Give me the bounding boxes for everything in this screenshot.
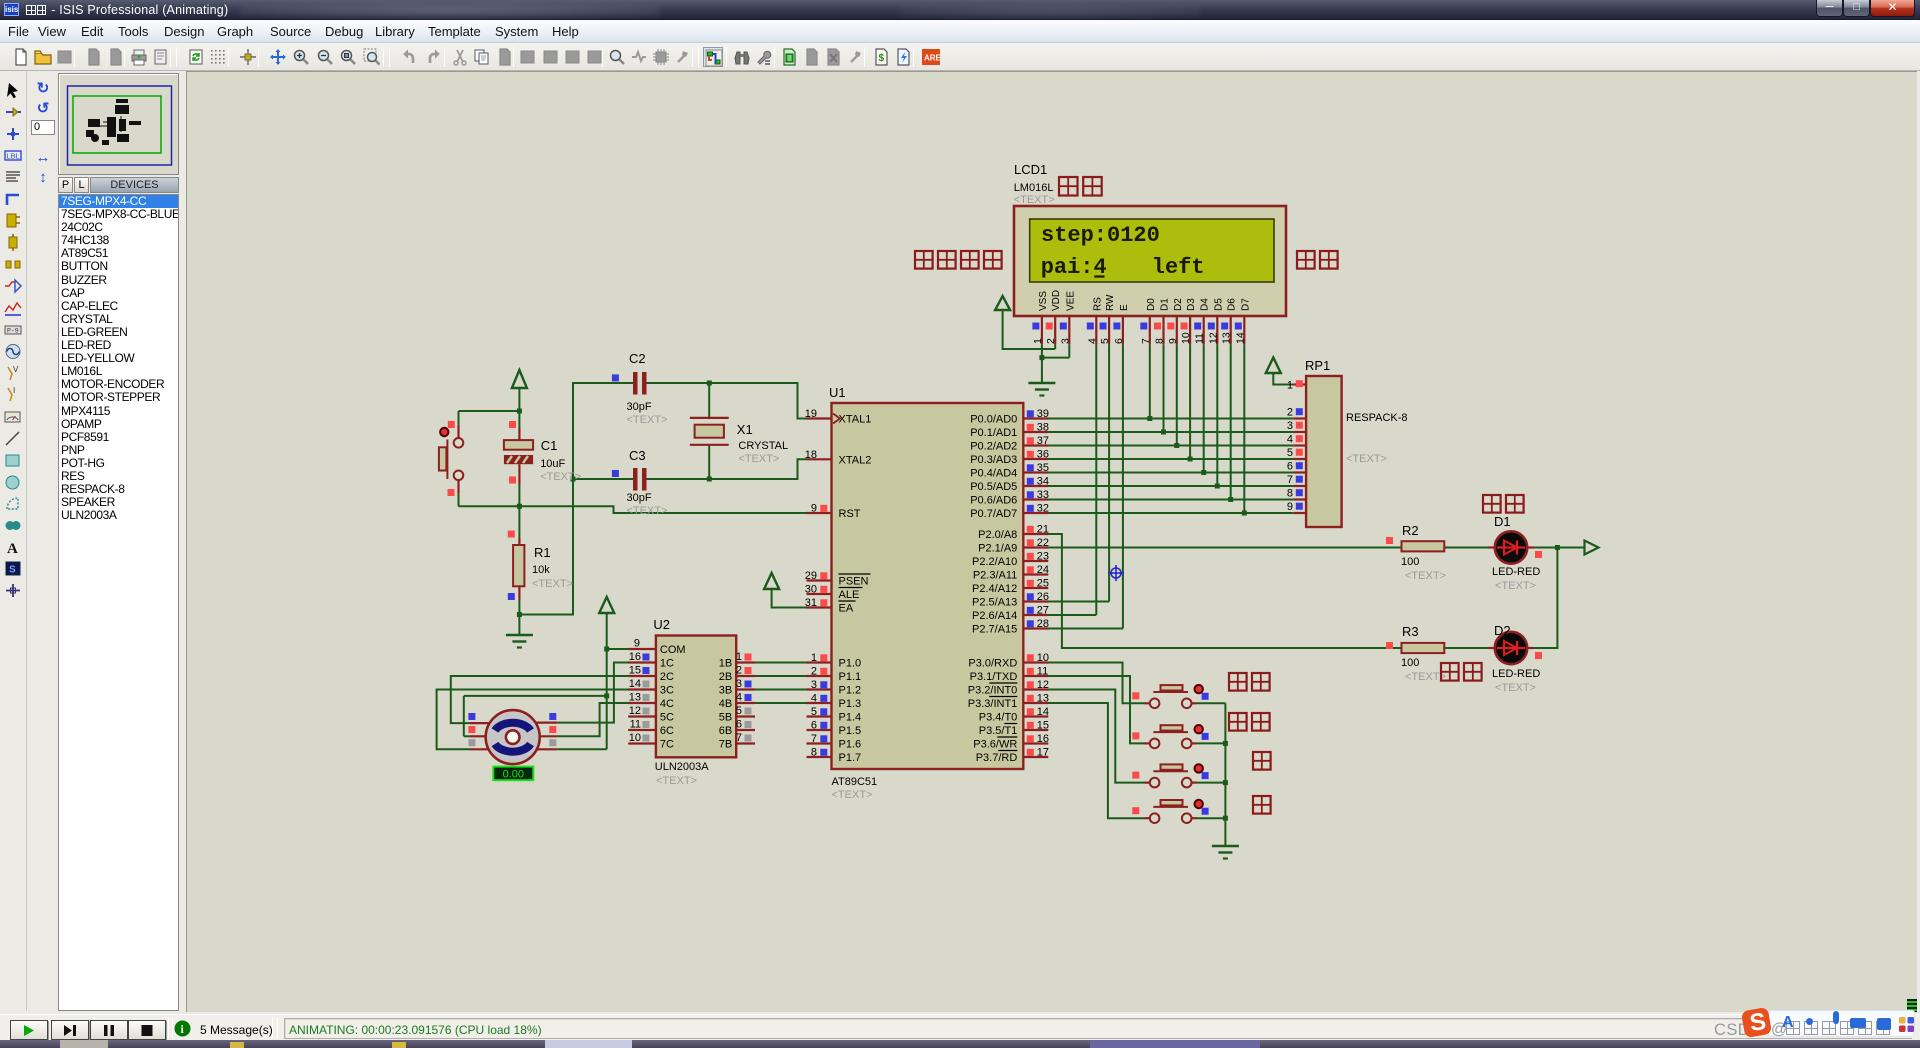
- label tongdianfangshi (power mode): [915, 251, 1002, 269]
- svg-text:D3: D3: [1186, 298, 1197, 311]
- U2 pin 2B (2): [719, 665, 755, 684]
- LCD1 pin D3 (10): [1180, 298, 1197, 345]
- svg-text:7: 7: [811, 733, 817, 745]
- wire LCD D4 to P0.4 bus: [1203, 344, 1205, 472]
- svg-text:7B: 7B: [719, 739, 732, 751]
- wire D1 node down to D2: [1534, 548, 1557, 649]
- svg-text:D7: D7: [1240, 298, 1251, 311]
- wire keys common to ground: [1197, 703, 1226, 846]
- svg-text:U2: U2: [653, 617, 670, 632]
- svg-text:AT89C51: AT89C51: [832, 776, 878, 788]
- svg-text:ULN2003A: ULN2003A: [655, 761, 709, 773]
- U1 pin P3.6/WR (16): [973, 733, 1049, 751]
- wire C3 right to XTAL2: [647, 459, 808, 479]
- svg-text:10: 10: [629, 732, 641, 744]
- svg-text:left: left: [1152, 255, 1205, 280]
- LCD1 pin D5 (12): [1207, 298, 1224, 345]
- svg-text:P1.4: P1.4: [839, 712, 862, 724]
- U1 pin P3.1/TXD (11): [970, 666, 1049, 684]
- LCD1 pin VEE (3): [1059, 291, 1076, 345]
- svg-text:9: 9: [634, 638, 640, 650]
- svg-text:22: 22: [1037, 537, 1049, 549]
- svg-text:2C: 2C: [660, 671, 674, 683]
- svg-text:16: 16: [629, 651, 641, 663]
- svg-text:30: 30: [805, 584, 817, 596]
- node junction button/C1 top: [517, 409, 522, 414]
- U1 pin P3.0/RXD (10): [968, 652, 1049, 670]
- svg-text:LED-RED: LED-RED: [1492, 566, 1540, 578]
- svg-text:P3.1/TXD: P3.1/TXD: [970, 671, 1018, 683]
- svg-text:RW: RW: [1105, 294, 1116, 311]
- wire R3 to D2: [1444, 647, 1488, 649]
- U1 pin P0.5/AD5 (34): [970, 476, 1049, 494]
- wire LCD VDD pin2 to VCC: [1003, 310, 1056, 349]
- svg-text:<TEXT>: <TEXT>: [1495, 682, 1536, 694]
- wire P2.0 to R3: [1048, 534, 1402, 648]
- svg-text:<TEXT>: <TEXT>: [1346, 453, 1387, 465]
- node junction X1 top: [707, 381, 712, 386]
- svg-text:D5: D5: [1213, 298, 1224, 311]
- svg-text:D1: D1: [1160, 298, 1171, 311]
- svg-text:8: 8: [811, 747, 817, 759]
- LED D2 LED-RED: [1488, 623, 1542, 694]
- label zhengfan (fwd/rev): [1441, 663, 1482, 681]
- svg-text:9: 9: [1287, 501, 1293, 513]
- svg-text:4: 4: [1287, 434, 1293, 446]
- svg-text:P0.1/AD1: P0.1/AD1: [970, 427, 1017, 439]
- U2 pin 7B (7): [719, 732, 755, 751]
- svg-text:RESPACK-8: RESPACK-8: [1346, 412, 1408, 424]
- push-button key 2 (set): [1132, 725, 1208, 748]
- node junction key2: [1223, 741, 1228, 746]
- svg-text:<TEXT>: <TEXT>: [540, 471, 581, 483]
- svg-text:19: 19: [805, 408, 817, 420]
- svg-text:P1.5: P1.5: [839, 725, 862, 737]
- wire X1 stems: [708, 383, 710, 479]
- svg-text:2: 2: [811, 666, 817, 678]
- svg-text:34: 34: [1037, 476, 1049, 488]
- svg-text:7: 7: [1140, 338, 1152, 344]
- U1 pin P0.6/AD6 (33): [970, 489, 1049, 507]
- svg-text:14: 14: [629, 678, 641, 690]
- svg-text:38: 38: [1037, 422, 1049, 434]
- svg-text:A: A: [7, 541, 18, 557]
- svg-text:<TEXT>: <TEXT>: [1495, 580, 1536, 592]
- svg-text:30pF: 30pF: [627, 492, 652, 504]
- svg-text:2: 2: [1045, 338, 1057, 344]
- U1 pin P2.0/A8 (21): [978, 524, 1049, 542]
- LCD1 pin D2 (9): [1167, 298, 1184, 345]
- node junction D2/P0.2: [1174, 443, 1179, 448]
- svg-text:P2.6/A14: P2.6/A14: [972, 610, 1017, 622]
- U1 pin P3.4/T0 (14): [979, 706, 1049, 724]
- RP1 pin 3: [1287, 420, 1306, 432]
- label qiting (start/stop) key: [1229, 673, 1270, 691]
- svg-text:P2.1/A9: P2.1/A9: [978, 543, 1017, 555]
- wire P0.7 to RP1 pin 9: [1048, 512, 1293, 514]
- svg-text:4: 4: [811, 693, 817, 705]
- U1 pin P3.5/T1 (15): [979, 720, 1049, 738]
- transistor-array U2 ULN2003A body: [653, 617, 736, 787]
- U1 pin ALE (30): [805, 584, 863, 602]
- wire EA to VCC: [772, 589, 807, 608]
- U1 pin P0.4/AD4 (35): [970, 462, 1049, 480]
- label jian (decrease) key: [1253, 796, 1271, 814]
- svg-text:100: 100: [1401, 556, 1419, 568]
- wire C2/C3 left plates to ground net: [519, 383, 633, 615]
- svg-text:5: 5: [1287, 447, 1293, 459]
- resistor R1 10k: [508, 531, 573, 601]
- svg-text:31: 31: [805, 597, 817, 609]
- push-button key 4 (dec): [1132, 800, 1208, 823]
- svg-text:P1.7: P1.7: [839, 752, 862, 764]
- U1 pin RST (9): [807, 503, 861, 521]
- svg-text:P2.0/A8: P2.0/A8: [978, 529, 1017, 541]
- svg-text:39: 39: [1037, 408, 1049, 420]
- svg-text:1: 1: [1032, 338, 1044, 344]
- U1 pin XTAL1 (19): [805, 408, 872, 426]
- wire P2.1 to R2: [1048, 547, 1402, 549]
- svg-text:15: 15: [629, 665, 641, 677]
- wire P3.0 to key 1: [1048, 663, 1145, 704]
- svg-text:10k: 10k: [532, 564, 550, 576]
- svg-text:XTAL2: XTAL2: [839, 454, 872, 466]
- wire P3.1 to key 2: [1048, 676, 1145, 743]
- svg-text:3: 3: [811, 679, 817, 691]
- svg-text:35: 35: [1037, 462, 1049, 474]
- wire P0.1 to RP1 pin 3: [1048, 431, 1293, 433]
- wire P3.2 to key 3: [1048, 690, 1145, 783]
- svg-text:R2: R2: [1402, 523, 1419, 538]
- svg-text:LED-RED: LED-RED: [1492, 668, 1540, 680]
- svg-text:0.00: 0.00: [503, 768, 524, 780]
- svg-text:P2.7/A15: P2.7/A15: [972, 624, 1017, 636]
- svg-text:PSEN: PSEN: [839, 576, 869, 588]
- svg-text:13: 13: [1221, 332, 1233, 344]
- svg-text:9: 9: [811, 503, 817, 515]
- svg-text:<TEXT>: <TEXT>: [738, 453, 779, 465]
- node junction D3/P0.3: [1188, 457, 1193, 462]
- svg-text:11: 11: [630, 719, 641, 731]
- label jia (increase) key: [1253, 752, 1271, 770]
- wire U2 3B to U1 P1.2: [755, 689, 807, 691]
- node junction motor common: [604, 693, 609, 698]
- svg-text:12: 12: [1037, 679, 1049, 691]
- svg-text:RST: RST: [839, 508, 861, 520]
- op-amp U1 AT89C51 microcontroller body: [829, 385, 1023, 801]
- wire LCD RW to P2.5: [1048, 344, 1109, 601]
- U1 pin P2.1/A9 (22): [978, 537, 1049, 555]
- RP1 pin 4: [1287, 434, 1306, 446]
- wire LCD D3 to P0.3 bus: [1189, 344, 1191, 459]
- U1 pin P3.2/INT0 (12): [968, 679, 1049, 697]
- origin marker: [1108, 565, 1124, 581]
- svg-text:2B: 2B: [719, 671, 732, 683]
- svg-text:P1.1: P1.1: [839, 671, 862, 683]
- wire node to R1 top: [518, 506, 520, 538]
- LCD1 pin D6 (13): [1221, 298, 1238, 345]
- motor-stepper: [468, 710, 557, 764]
- U1 pin P0.3/AD3 (36): [970, 449, 1049, 467]
- svg-text:6: 6: [1113, 338, 1125, 344]
- svg-text:4B: 4B: [719, 698, 732, 710]
- U2 pin COM (9): [628, 638, 685, 657]
- svg-text:D6: D6: [1227, 298, 1238, 311]
- resistor-pack RP1 RESPACK-8 body: [1305, 358, 1408, 527]
- svg-text:C2: C2: [629, 351, 646, 366]
- svg-text:29: 29: [805, 570, 817, 582]
- U1 pin P1.6 (7): [807, 733, 862, 751]
- svg-text:8: 8: [1154, 338, 1166, 344]
- svg-text:33: 33: [1037, 489, 1049, 501]
- svg-text:P-9: P-9: [7, 328, 19, 335]
- wire LCD D5 to P0.5 bus: [1216, 344, 1218, 486]
- svg-text:3B: 3B: [719, 685, 732, 697]
- wire P3.3 to key 4: [1048, 703, 1145, 818]
- label bushu (step count): [1059, 177, 1102, 196]
- svg-text:3: 3: [1059, 338, 1071, 344]
- svg-text:S: S: [9, 565, 16, 576]
- svg-text:P0.5/AD5: P0.5/AD5: [970, 481, 1017, 493]
- svg-text:27: 27: [1037, 605, 1049, 617]
- U2 pin 6B (6): [719, 719, 755, 738]
- svg-text:R1: R1: [534, 545, 551, 560]
- LCD1 pin D0 (7): [1140, 298, 1157, 345]
- U1 pin P0.1/AD1 (38): [970, 422, 1049, 440]
- svg-text:U1: U1: [829, 385, 846, 400]
- U1 pin P1.5 (6): [807, 720, 862, 738]
- LCD1 pin D7 (14): [1234, 298, 1251, 345]
- wire P0.5 to RP1 pin 7: [1048, 485, 1293, 487]
- wire ground stem: [518, 615, 520, 636]
- power VCC arrow (ULN2003A COM): [599, 597, 614, 613]
- output arrow terminal: [1585, 541, 1599, 555]
- RP1 pin 8: [1287, 488, 1306, 500]
- svg-text:P1.3: P1.3: [839, 698, 862, 710]
- svg-text:P0.3/AD3: P0.3/AD3: [970, 454, 1017, 466]
- U1 pin P1.7 (8): [807, 747, 862, 765]
- U1 pin EA (31): [805, 597, 856, 615]
- svg-text:14: 14: [1234, 332, 1246, 344]
- wire LCD D0 to P0.0 bus: [1149, 344, 1151, 418]
- LCD1 pin E (6): [1113, 304, 1130, 344]
- node junction D5/P0.5: [1215, 484, 1220, 489]
- wire U2 2C to motor left-top: [451, 676, 629, 723]
- svg-text:6: 6: [736, 719, 742, 731]
- wire C2 right to XTAL1: [647, 383, 808, 419]
- svg-text:X1: X1: [737, 422, 753, 437]
- U2 pin 4B (4): [719, 692, 755, 711]
- U2 pin 5C (12): [628, 705, 674, 724]
- svg-text:37: 37: [1037, 435, 1049, 447]
- U1 pin P2.6/A14 (27): [972, 605, 1049, 623]
- svg-text:ARES: ARES: [924, 54, 940, 63]
- wire P0.4 to RP1 pin 6: [1048, 472, 1293, 474]
- node junction D0/P0.0: [1147, 416, 1152, 421]
- svg-text:P0.6/AD6: P0.6/AD6: [970, 495, 1017, 507]
- U1 pin P0.0/AD0 (39): [970, 408, 1049, 426]
- svg-text:11: 11: [1194, 333, 1206, 344]
- RP1 pin 9: [1287, 501, 1306, 513]
- svg-text:RS: RS: [1092, 297, 1103, 311]
- wire RST net to U1 pin 9: [519, 506, 807, 513]
- svg-text:26: 26: [1037, 591, 1049, 603]
- svg-text:R3: R3: [1402, 624, 1419, 639]
- wire LCD D2 to P0.2 bus: [1176, 344, 1178, 445]
- svg-text:ALE: ALE: [839, 589, 860, 601]
- push-button (reset): [439, 421, 463, 496]
- svg-text:11: 11: [1037, 666, 1048, 678]
- LCD1 pin RW (5): [1099, 294, 1116, 344]
- wire U2 4C to motor right-mid: [557, 703, 629, 736]
- node junction VSS/VEE: [1039, 355, 1044, 360]
- svg-text:step:0120: step:0120: [1041, 223, 1160, 248]
- svg-text:C1: C1: [541, 438, 558, 453]
- U1 pin P1.1 (2): [807, 666, 862, 684]
- wire C1 bottom to node: [518, 485, 520, 506]
- svg-text:5B: 5B: [719, 712, 732, 724]
- svg-text:D0: D0: [1146, 298, 1157, 311]
- svg-text:1: 1: [736, 651, 742, 663]
- svg-text:P1.2: P1.2: [839, 685, 862, 697]
- svg-text:7: 7: [736, 732, 742, 744]
- svg-text:C3: C3: [629, 448, 646, 463]
- LCD1 pin VDD (2): [1045, 290, 1062, 344]
- U1 pin P1.2 (3): [807, 679, 862, 697]
- node junction D7/P0.7: [1242, 511, 1247, 516]
- U2 pin 7C (10): [628, 732, 674, 751]
- U1 pin P3.7/RD (17): [976, 747, 1049, 765]
- U2 pin 2C (15): [628, 665, 674, 684]
- motor speed readout 0.00: [493, 767, 533, 781]
- svg-text:6: 6: [1287, 461, 1293, 473]
- svg-text:COM: COM: [660, 644, 686, 656]
- wire P0.0 to RP1 pin 2: [1048, 418, 1293, 420]
- wire LCD D7 to P0.7 bus: [1243, 344, 1245, 513]
- wire P0.6 to RP1 pin 8: [1048, 499, 1293, 501]
- svg-text:4C: 4C: [660, 698, 674, 710]
- svg-text:VDD: VDD: [1051, 290, 1062, 311]
- U2 pin 5B (5): [719, 705, 755, 724]
- svg-text:7: 7: [1287, 474, 1293, 486]
- svg-text:<TEXT>: <TEXT>: [627, 414, 668, 426]
- LCD1 screen: [1030, 219, 1274, 282]
- svg-text:D2: D2: [1173, 298, 1184, 311]
- capacitor C3 30pF: [612, 448, 668, 517]
- svg-text:25: 25: [1037, 578, 1049, 590]
- svg-text:10uF: 10uF: [540, 458, 565, 470]
- U1 pin P1.3 (4): [807, 693, 862, 711]
- RP1 pin 2: [1287, 407, 1306, 419]
- resistor R2 100: [1386, 523, 1446, 582]
- U2 pin 3B (3): [719, 678, 755, 697]
- node junction R1 bottom/ground: [517, 612, 522, 617]
- svg-text:28: 28: [1037, 618, 1049, 630]
- node junction D1 output: [1555, 545, 1560, 550]
- svg-text:5: 5: [736, 705, 742, 717]
- RP1 pin 1: [1287, 380, 1306, 392]
- U1 pin P1.0 (1): [807, 652, 862, 670]
- wire VCC to button/C1 top node: [459, 388, 520, 425]
- svg-text:P0.2/AD2: P0.2/AD2: [970, 441, 1017, 453]
- svg-text:10: 10: [1037, 652, 1049, 664]
- svg-text:5C: 5C: [660, 712, 674, 724]
- svg-text:17: 17: [1037, 747, 1049, 759]
- wire LCD D1 to P0.1 bus: [1163, 344, 1165, 432]
- U2 pin 3C (14): [628, 678, 674, 697]
- svg-text:P2.4/A12: P2.4/A12: [972, 583, 1017, 595]
- svg-text:30pF: 30pF: [627, 401, 652, 413]
- svg-text:4: 4: [1086, 338, 1098, 344]
- power VCC arrow (button/C1): [512, 370, 527, 388]
- U1 pin P3.3/INT1 (13): [968, 693, 1049, 711]
- svg-text:EA: EA: [839, 603, 854, 615]
- svg-text:XTAL1: XTAL1: [839, 414, 872, 426]
- label shezhi (set) key: [1229, 713, 1270, 731]
- U1 pin XTAL2 (18): [805, 449, 872, 467]
- svg-text:P3.5/T1: P3.5/T1: [979, 725, 1018, 737]
- svg-text:P3.4/T0: P3.4/T0: [979, 712, 1018, 724]
- push-button key 3 (inc): [1132, 764, 1208, 787]
- svg-text:P3.0/RXD: P3.0/RXD: [968, 658, 1017, 670]
- svg-text:5: 5: [811, 706, 817, 718]
- svg-text:15: 15: [1037, 720, 1049, 732]
- U1 pin P0.7/AD7 (32): [970, 503, 1049, 521]
- svg-text:3: 3: [736, 678, 742, 690]
- svg-text:CRYSTAL: CRYSTAL: [738, 440, 788, 452]
- svg-text:10: 10: [1180, 332, 1192, 344]
- svg-text:E: E: [1119, 304, 1130, 311]
- push-button key 1 (start/stop): [1132, 685, 1208, 708]
- svg-text:<TEXT>: <TEXT>: [532, 578, 573, 590]
- U1 pin PSEN (29): [805, 570, 871, 588]
- svg-text:14: 14: [1037, 706, 1049, 718]
- U2 pin 1C (16): [628, 651, 674, 670]
- LCD1 pin VSS (1): [1032, 291, 1049, 345]
- wire P0.3 to RP1 pin 5: [1048, 458, 1293, 460]
- wire U2 1C to motor right-top: [557, 663, 629, 723]
- wire C1 top stub: [518, 411, 520, 428]
- wire P0.2 to RP1 pin 4: [1048, 445, 1293, 447]
- wire U2 3C to motor left-bottom: [437, 690, 629, 750]
- svg-text:6B: 6B: [719, 725, 732, 737]
- svg-text:P3.7/RD: P3.7/RD: [976, 752, 1018, 764]
- U1 pin P2.2/A10 (23): [972, 551, 1049, 569]
- svg-text:P2.5/A13: P2.5/A13: [972, 597, 1017, 609]
- svg-text:P0.4/AD4: P0.4/AD4: [970, 468, 1017, 480]
- svg-text:1C: 1C: [660, 658, 674, 670]
- svg-text:18: 18: [805, 449, 817, 461]
- svg-text:P0.0/AD0: P0.0/AD0: [970, 414, 1017, 426]
- power VCC arrow (RP1): [1266, 358, 1281, 374]
- wire D1 to output arrow node: [1534, 547, 1585, 549]
- svg-text:P0.7/AD7: P0.7/AD7: [970, 508, 1017, 520]
- svg-text:32: 32: [1037, 503, 1049, 515]
- svg-text:RP1: RP1: [1305, 358, 1330, 373]
- svg-text:3C: 3C: [660, 685, 674, 697]
- svg-text:P3.6/WR: P3.6/WR: [973, 739, 1017, 751]
- svg-text:1: 1: [811, 652, 817, 664]
- svg-text:I: I: [13, 386, 15, 395]
- svg-text:16: 16: [1037, 733, 1049, 745]
- power VCC arrow (LCD VDD): [995, 296, 1010, 310]
- svg-text:24: 24: [1037, 564, 1049, 576]
- svg-text:100: 100: [1401, 657, 1419, 669]
- svg-text:36: 36: [1037, 449, 1049, 461]
- svg-text:7C: 7C: [660, 739, 674, 751]
- wire RP1 pin1 to VCC: [1273, 373, 1293, 385]
- svg-text:<TEXT>: <TEXT>: [832, 789, 873, 801]
